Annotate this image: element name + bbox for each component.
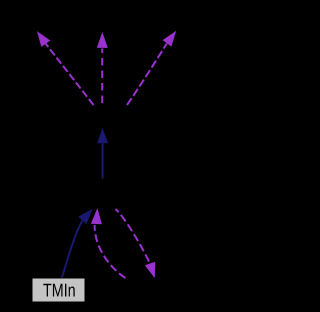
node N2 lower-middle (hidden)	[64, 178, 142, 207]
node top-right (hidden)	[145, 4, 210, 30]
edge N1 to top-right (dashed usage)	[127, 31, 176, 105]
node N3 bottom-right (hidden)	[104, 278, 188, 302]
edge N1 to top-left (dashed usage)	[37, 31, 94, 105]
node N1 middle (hidden)	[63, 103, 143, 128]
edge N1 to top-middle (dashed usage)	[97, 32, 108, 103]
node TMIn (current node, grey box)	[32, 278, 85, 302]
edge N3 to N2 (dashed usage, bows left)	[91, 208, 126, 278]
edge TMIn to N2 (solid inheritance, curved)	[62, 209, 93, 279]
edge N2 to N1 (solid inheritance)	[97, 128, 108, 179]
node top-left (hidden)	[2, 4, 68, 30]
node top-middle (hidden)	[70, 4, 135, 30]
edge N2 to N3 (dashed usage, bows right)	[116, 209, 156, 278]
